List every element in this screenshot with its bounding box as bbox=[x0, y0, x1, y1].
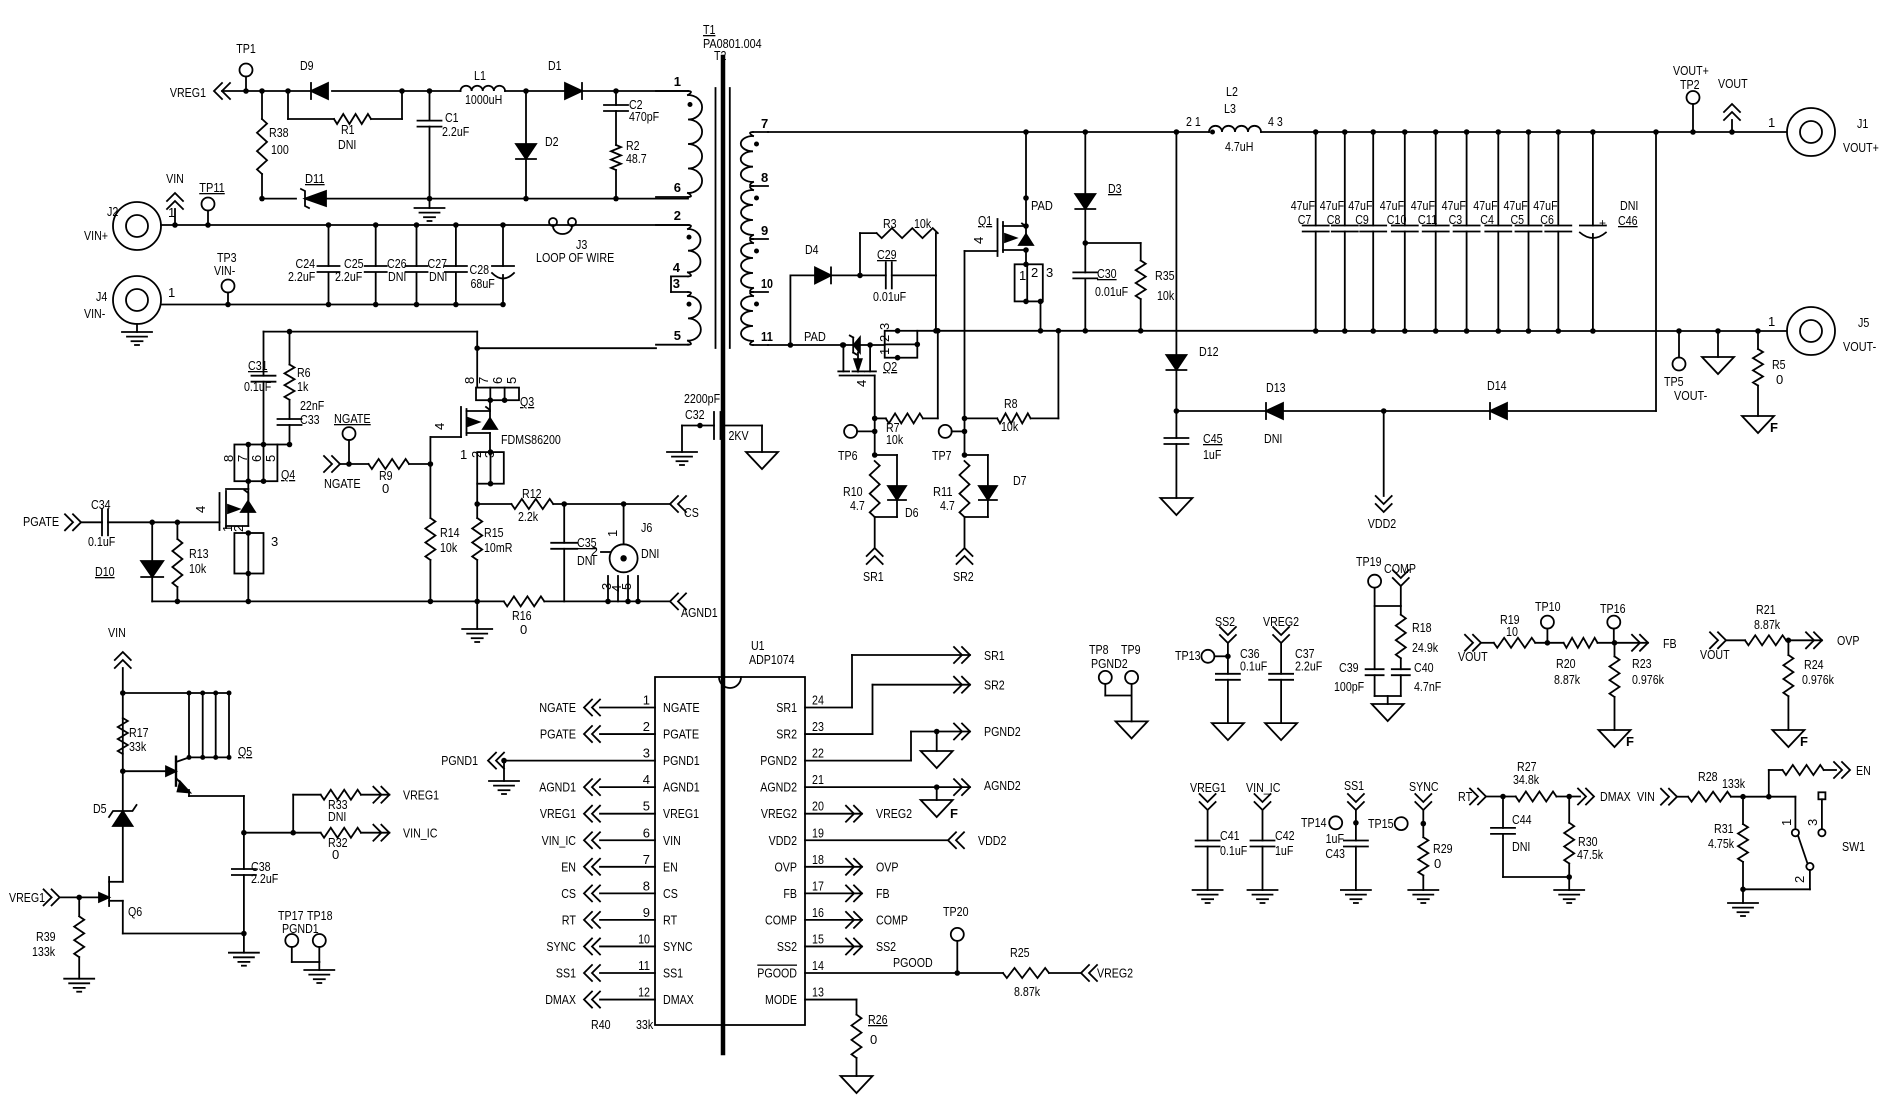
svg-text:R1: R1 bbox=[341, 122, 355, 137]
svg-text:7: 7 bbox=[235, 455, 250, 462]
svg-text:C5: C5 bbox=[1511, 212, 1525, 227]
svg-text:1k: 1k bbox=[297, 379, 309, 394]
svg-text:OVP: OVP bbox=[1837, 633, 1860, 648]
svg-text:1uF: 1uF bbox=[1203, 447, 1221, 462]
svg-text:2: 2 bbox=[877, 335, 892, 342]
svg-text:TP1: TP1 bbox=[236, 41, 256, 56]
svg-text:DNI: DNI bbox=[338, 137, 356, 152]
svg-text:11: 11 bbox=[761, 329, 773, 344]
svg-text:R39: R39 bbox=[36, 929, 56, 944]
svg-text:C11: C11 bbox=[1418, 212, 1438, 227]
svg-text:TP2: TP2 bbox=[1680, 77, 1700, 92]
svg-text:TP8: TP8 bbox=[1089, 642, 1109, 657]
svg-text:R29: R29 bbox=[1433, 841, 1453, 856]
svg-text:SR1: SR1 bbox=[984, 648, 1005, 663]
svg-text:+: + bbox=[1599, 216, 1606, 230]
svg-text:5: 5 bbox=[619, 583, 634, 590]
svg-text:PGND2: PGND2 bbox=[760, 753, 797, 768]
svg-text:C8: C8 bbox=[1327, 212, 1341, 227]
svg-text:D11: D11 bbox=[305, 171, 325, 186]
svg-text:2KV: 2KV bbox=[729, 428, 749, 443]
svg-text:9: 9 bbox=[761, 223, 768, 238]
svg-text:TP16: TP16 bbox=[1600, 601, 1626, 616]
svg-text:C40: C40 bbox=[1414, 660, 1434, 675]
svg-text:10k: 10k bbox=[1001, 419, 1019, 434]
svg-text:DNI: DNI bbox=[641, 546, 659, 561]
svg-text:22nF: 22nF bbox=[300, 398, 324, 413]
svg-text:L3: L3 bbox=[1224, 101, 1236, 116]
svg-text:2.2uF: 2.2uF bbox=[335, 269, 362, 284]
svg-text:10k: 10k bbox=[440, 540, 458, 555]
svg-text:2.2k: 2.2k bbox=[518, 509, 539, 524]
svg-text:D5: D5 bbox=[93, 801, 107, 816]
svg-text:AGND2: AGND2 bbox=[984, 778, 1021, 793]
svg-text:47uF: 47uF bbox=[1320, 198, 1344, 213]
svg-text:CS: CS bbox=[561, 886, 576, 901]
svg-text:23: 23 bbox=[812, 719, 824, 734]
svg-text:133k: 133k bbox=[32, 944, 55, 959]
svg-text:TP6: TP6 bbox=[838, 448, 858, 463]
svg-text:D12: D12 bbox=[1199, 344, 1219, 359]
svg-text:FB: FB bbox=[876, 886, 890, 901]
svg-text:47uF: 47uF bbox=[1473, 198, 1497, 213]
svg-text:100: 100 bbox=[271, 142, 289, 157]
svg-text:7: 7 bbox=[643, 852, 650, 867]
svg-text:22: 22 bbox=[812, 746, 824, 761]
svg-text:D10: D10 bbox=[95, 564, 115, 579]
svg-text:SYNC: SYNC bbox=[1409, 779, 1439, 794]
svg-text:14: 14 bbox=[812, 958, 824, 973]
svg-text:PGOOD: PGOOD bbox=[893, 955, 933, 970]
svg-text:VIN+: VIN+ bbox=[84, 228, 108, 243]
svg-text:R13: R13 bbox=[189, 546, 209, 561]
svg-text:0: 0 bbox=[1434, 856, 1441, 871]
svg-text:1uF: 1uF bbox=[1275, 843, 1293, 858]
svg-text:0: 0 bbox=[1776, 372, 1783, 387]
svg-text:3: 3 bbox=[877, 323, 892, 330]
svg-text:AGND2: AGND2 bbox=[760, 780, 797, 795]
svg-text:DNI: DNI bbox=[328, 809, 346, 824]
svg-text:EN: EN bbox=[561, 859, 576, 874]
svg-text:2 1: 2 1 bbox=[1186, 114, 1201, 129]
svg-text:4: 4 bbox=[193, 506, 208, 513]
svg-text:4.7: 4.7 bbox=[850, 498, 865, 513]
svg-text:Q2: Q2 bbox=[883, 359, 897, 374]
svg-text:DNI: DNI bbox=[1620, 198, 1638, 213]
svg-text:R3: R3 bbox=[883, 216, 897, 231]
svg-text:VREG1: VREG1 bbox=[540, 806, 576, 821]
svg-text:VDD2: VDD2 bbox=[978, 833, 1006, 848]
svg-text:24: 24 bbox=[812, 693, 824, 708]
svg-text:R15: R15 bbox=[484, 525, 504, 540]
svg-text:15: 15 bbox=[812, 931, 824, 946]
svg-text:SS1: SS1 bbox=[1344, 778, 1364, 793]
svg-text:4.7uH: 4.7uH bbox=[1225, 139, 1253, 154]
svg-text:18: 18 bbox=[812, 852, 824, 867]
svg-text:C44: C44 bbox=[1512, 812, 1532, 827]
svg-text:17: 17 bbox=[812, 878, 824, 893]
svg-text:1: 1 bbox=[643, 693, 650, 708]
svg-text:5: 5 bbox=[674, 328, 681, 343]
svg-text:FDMS86200: FDMS86200 bbox=[501, 432, 561, 447]
svg-text:ADP1074: ADP1074 bbox=[749, 652, 795, 667]
svg-text:SYNC: SYNC bbox=[663, 939, 693, 954]
svg-text:DNI: DNI bbox=[388, 269, 406, 284]
svg-text:0.1uF: 0.1uF bbox=[1240, 659, 1267, 674]
svg-text:100pF: 100pF bbox=[1334, 679, 1364, 694]
svg-text:R38: R38 bbox=[269, 125, 289, 140]
svg-text:F: F bbox=[1626, 734, 1634, 749]
svg-text:R28: R28 bbox=[1698, 769, 1718, 784]
svg-text:470pF: 470pF bbox=[629, 109, 659, 124]
svg-text:0.01uF: 0.01uF bbox=[1095, 284, 1128, 299]
svg-text:LOOP OF WIRE: LOOP OF WIRE bbox=[536, 250, 614, 265]
svg-text:VIN_IC: VIN_IC bbox=[542, 833, 576, 848]
svg-text:C39: C39 bbox=[1339, 660, 1359, 675]
svg-text:C6: C6 bbox=[1540, 212, 1554, 227]
svg-text:19: 19 bbox=[812, 825, 824, 840]
svg-text:FB: FB bbox=[1663, 636, 1677, 651]
svg-text:5: 5 bbox=[263, 455, 278, 462]
svg-text:Q3: Q3 bbox=[520, 394, 534, 409]
svg-text:PA0801.004: PA0801.004 bbox=[703, 36, 762, 51]
svg-text:R21: R21 bbox=[1756, 602, 1776, 617]
svg-text:4.7: 4.7 bbox=[940, 498, 955, 513]
svg-text:VIN: VIN bbox=[166, 171, 184, 186]
svg-text:10mR: 10mR bbox=[484, 540, 512, 555]
svg-text:VIN: VIN bbox=[663, 833, 681, 848]
svg-text:10k: 10k bbox=[1157, 288, 1175, 303]
svg-text:3: 3 bbox=[1805, 819, 1820, 826]
svg-text:C45: C45 bbox=[1203, 431, 1223, 446]
svg-text:R8: R8 bbox=[1004, 396, 1018, 411]
svg-text:D13: D13 bbox=[1266, 380, 1286, 395]
svg-text:5: 5 bbox=[504, 377, 519, 384]
svg-text:MODE: MODE bbox=[765, 992, 797, 1007]
svg-text:47uF: 47uF bbox=[1291, 198, 1315, 213]
svg-text:AGND1: AGND1 bbox=[539, 780, 576, 795]
svg-text:C30: C30 bbox=[1097, 266, 1117, 281]
svg-text:1: 1 bbox=[605, 530, 620, 537]
svg-text:47uF: 47uF bbox=[1380, 198, 1404, 213]
svg-text:C7: C7 bbox=[1298, 212, 1312, 227]
svg-text:C3: C3 bbox=[1449, 212, 1463, 227]
svg-text:20: 20 bbox=[812, 799, 824, 814]
svg-text:33k: 33k bbox=[129, 739, 147, 754]
svg-text:L2: L2 bbox=[1226, 84, 1238, 99]
svg-text:R12: R12 bbox=[522, 486, 542, 501]
svg-text:VIN_IC: VIN_IC bbox=[1246, 780, 1280, 795]
svg-text:2200pF: 2200pF bbox=[684, 391, 720, 406]
svg-text:VREG1: VREG1 bbox=[1190, 780, 1226, 795]
svg-text:Q4: Q4 bbox=[281, 467, 295, 482]
svg-text:0.1uF: 0.1uF bbox=[244, 379, 271, 394]
svg-text:DNI: DNI bbox=[1264, 431, 1282, 446]
svg-text:1: 1 bbox=[1779, 819, 1794, 826]
svg-text:R35: R35 bbox=[1155, 268, 1175, 283]
svg-text:SR2: SR2 bbox=[984, 678, 1005, 693]
svg-text:2: 2 bbox=[674, 208, 681, 223]
svg-text:4: 4 bbox=[854, 380, 869, 387]
svg-text:C9: C9 bbox=[1355, 212, 1369, 227]
svg-text:8: 8 bbox=[643, 878, 650, 893]
svg-text:1uF: 1uF bbox=[1326, 831, 1344, 846]
svg-text:1: 1 bbox=[1768, 314, 1775, 329]
svg-text:R26: R26 bbox=[868, 1012, 888, 1027]
svg-text:47uF: 47uF bbox=[1504, 198, 1528, 213]
svg-text:VIN: VIN bbox=[108, 625, 126, 640]
svg-text:VOUT: VOUT bbox=[1458, 649, 1488, 664]
svg-text:0.976k: 0.976k bbox=[1632, 672, 1664, 687]
svg-text:SS2: SS2 bbox=[876, 939, 896, 954]
svg-text:DMAX: DMAX bbox=[545, 992, 576, 1007]
svg-text:RT: RT bbox=[663, 912, 677, 927]
svg-text:4.7nF: 4.7nF bbox=[1414, 679, 1441, 694]
svg-text:R11: R11 bbox=[933, 484, 953, 499]
svg-text:7: 7 bbox=[761, 116, 768, 131]
svg-text:68uF: 68uF bbox=[471, 276, 495, 291]
svg-text:R24: R24 bbox=[1804, 657, 1824, 672]
svg-text:TP10: TP10 bbox=[1535, 599, 1561, 614]
svg-text:4: 4 bbox=[673, 260, 681, 275]
svg-text:C42: C42 bbox=[1275, 828, 1295, 843]
svg-text:VIN-: VIN- bbox=[84, 306, 105, 321]
svg-text:47uF: 47uF bbox=[1348, 198, 1372, 213]
svg-text:VDD2: VDD2 bbox=[1368, 516, 1396, 531]
svg-text:COMP: COMP bbox=[876, 912, 908, 927]
svg-text:VOUT+: VOUT+ bbox=[1843, 140, 1879, 155]
svg-text:COMP: COMP bbox=[1384, 561, 1416, 576]
svg-text:0: 0 bbox=[870, 1032, 877, 1047]
svg-text:10: 10 bbox=[638, 931, 650, 946]
svg-text:R5: R5 bbox=[1772, 357, 1786, 372]
svg-text:1: 1 bbox=[674, 74, 681, 89]
svg-text:DMAX: DMAX bbox=[663, 992, 694, 1007]
svg-text:NGATE: NGATE bbox=[539, 700, 576, 715]
svg-text:PGND2: PGND2 bbox=[1091, 656, 1128, 671]
svg-text:0: 0 bbox=[332, 847, 339, 862]
svg-text:SR2: SR2 bbox=[776, 727, 797, 742]
svg-text:D14: D14 bbox=[1487, 378, 1507, 393]
svg-text:NGATE: NGATE bbox=[663, 700, 700, 715]
svg-text:C34: C34 bbox=[91, 497, 111, 512]
svg-text:7: 7 bbox=[476, 377, 491, 384]
svg-text:3: 3 bbox=[643, 746, 650, 761]
svg-text:PGOOD: PGOOD bbox=[757, 966, 797, 981]
svg-text:D2: D2 bbox=[545, 134, 559, 149]
svg-text:2.2uF: 2.2uF bbox=[1295, 659, 1322, 674]
svg-text:PGND2: PGND2 bbox=[984, 724, 1021, 739]
svg-text:133k: 133k bbox=[1722, 776, 1745, 791]
svg-text:4.75k: 4.75k bbox=[1708, 836, 1735, 851]
svg-text:TP13: TP13 bbox=[1175, 648, 1201, 663]
svg-text:C41: C41 bbox=[1220, 828, 1240, 843]
svg-text:R40: R40 bbox=[591, 1017, 611, 1032]
svg-text:47.5k: 47.5k bbox=[1577, 847, 1604, 862]
svg-text:1: 1 bbox=[460, 447, 467, 462]
svg-text:EN: EN bbox=[663, 859, 678, 874]
svg-text:T1: T1 bbox=[703, 22, 715, 37]
svg-text:3: 3 bbox=[673, 276, 680, 291]
svg-text:CS: CS bbox=[684, 505, 699, 520]
svg-text:C31: C31 bbox=[248, 358, 268, 373]
svg-text:VREG1: VREG1 bbox=[403, 788, 439, 803]
svg-text:R6: R6 bbox=[297, 365, 311, 380]
svg-text:2.2uF: 2.2uF bbox=[442, 124, 469, 139]
svg-text:F: F bbox=[1800, 734, 1808, 749]
svg-text:33k: 33k bbox=[636, 1017, 654, 1032]
svg-text:U1: U1 bbox=[751, 638, 765, 653]
svg-text:D3: D3 bbox=[1108, 181, 1122, 196]
svg-text:R31: R31 bbox=[1714, 821, 1734, 836]
svg-text:CS: CS bbox=[663, 886, 678, 901]
svg-text:47uF: 47uF bbox=[1442, 198, 1466, 213]
svg-text:R20: R20 bbox=[1556, 656, 1576, 671]
svg-text:F: F bbox=[950, 806, 958, 821]
svg-text:R10: R10 bbox=[843, 484, 863, 499]
svg-text:R16: R16 bbox=[512, 608, 532, 623]
svg-text:PGND1: PGND1 bbox=[441, 753, 478, 768]
svg-text:16: 16 bbox=[812, 905, 824, 920]
svg-text:C28: C28 bbox=[470, 262, 490, 277]
svg-text:10: 10 bbox=[761, 276, 773, 291]
svg-text:SS1: SS1 bbox=[556, 966, 576, 981]
svg-text:VOUT-: VOUT- bbox=[1674, 388, 1707, 403]
svg-text:47uF: 47uF bbox=[1533, 198, 1557, 213]
svg-text:J5: J5 bbox=[1858, 315, 1869, 330]
svg-text:VIN-: VIN- bbox=[214, 263, 235, 278]
svg-text:C29: C29 bbox=[877, 247, 897, 262]
svg-text:TP7: TP7 bbox=[932, 448, 952, 463]
svg-text:AGND1: AGND1 bbox=[663, 780, 700, 795]
svg-text:PAD: PAD bbox=[804, 329, 826, 344]
svg-text:D9: D9 bbox=[300, 58, 314, 73]
svg-text:Q5: Q5 bbox=[238, 744, 252, 759]
svg-text:1: 1 bbox=[1019, 268, 1026, 283]
svg-text:2.2uF: 2.2uF bbox=[288, 269, 315, 284]
svg-text:5: 5 bbox=[643, 799, 650, 814]
svg-text:VDD2: VDD2 bbox=[769, 833, 797, 848]
svg-text:4: 4 bbox=[432, 423, 447, 430]
svg-text:3: 3 bbox=[1046, 265, 1053, 280]
svg-text:Q1: Q1 bbox=[978, 213, 992, 228]
svg-text:12: 12 bbox=[638, 985, 650, 1000]
svg-text:DNI: DNI bbox=[429, 269, 447, 284]
svg-text:TP15: TP15 bbox=[1368, 816, 1394, 831]
svg-text:PAD: PAD bbox=[1031, 198, 1053, 213]
svg-text:R18: R18 bbox=[1412, 620, 1432, 635]
svg-text:SYNC: SYNC bbox=[546, 939, 576, 954]
svg-text:C32: C32 bbox=[685, 407, 705, 422]
svg-text:FB: FB bbox=[783, 886, 797, 901]
svg-text:0.01uF: 0.01uF bbox=[873, 289, 906, 304]
svg-text:L1: L1 bbox=[474, 68, 486, 83]
svg-text:C10: C10 bbox=[1387, 212, 1407, 227]
svg-text:8: 8 bbox=[761, 170, 768, 185]
svg-text:D1: D1 bbox=[548, 58, 562, 73]
svg-text:TP19: TP19 bbox=[1356, 554, 1382, 569]
svg-text:6: 6 bbox=[490, 377, 505, 384]
svg-text:8: 8 bbox=[221, 455, 236, 462]
svg-text:DMAX: DMAX bbox=[1600, 789, 1631, 804]
svg-text:2: 2 bbox=[1031, 265, 1038, 280]
svg-text:1: 1 bbox=[168, 285, 175, 300]
svg-text:D4: D4 bbox=[805, 242, 819, 257]
svg-text:TP14: TP14 bbox=[1301, 815, 1327, 830]
svg-text:0.976k: 0.976k bbox=[1802, 672, 1834, 687]
svg-text:NGATE: NGATE bbox=[324, 476, 361, 491]
svg-text:VOUT-: VOUT- bbox=[1843, 339, 1876, 354]
svg-text:2: 2 bbox=[1792, 876, 1807, 883]
svg-text:6: 6 bbox=[674, 180, 681, 195]
svg-text:VIN: VIN bbox=[1637, 789, 1655, 804]
svg-text:VOUT: VOUT bbox=[1700, 647, 1730, 662]
svg-text:6: 6 bbox=[249, 455, 264, 462]
svg-text:47uF: 47uF bbox=[1411, 198, 1435, 213]
svg-text:VREG2: VREG2 bbox=[761, 806, 797, 821]
svg-text:J6: J6 bbox=[641, 520, 652, 535]
svg-text:13: 13 bbox=[812, 985, 824, 1000]
svg-text:SR1: SR1 bbox=[863, 569, 884, 584]
svg-text:4 3: 4 3 bbox=[1268, 114, 1283, 129]
svg-text:D7: D7 bbox=[1013, 473, 1027, 488]
svg-text:C1: C1 bbox=[445, 110, 459, 125]
svg-text:TP11: TP11 bbox=[199, 180, 225, 195]
svg-text:OVP: OVP bbox=[775, 859, 798, 874]
svg-text:PGATE: PGATE bbox=[540, 727, 576, 742]
svg-text:R23: R23 bbox=[1632, 656, 1652, 671]
svg-text:TP20: TP20 bbox=[943, 904, 969, 919]
svg-text:VREG2: VREG2 bbox=[1097, 966, 1133, 981]
svg-text:0: 0 bbox=[520, 622, 527, 637]
svg-text:J4: J4 bbox=[96, 289, 107, 304]
svg-text:R14: R14 bbox=[440, 525, 460, 540]
svg-text:2.2uF: 2.2uF bbox=[251, 871, 278, 886]
svg-text:10k: 10k bbox=[914, 216, 932, 231]
svg-text:1000uH: 1000uH bbox=[465, 92, 502, 107]
svg-text:J2: J2 bbox=[107, 204, 118, 219]
svg-text:10k: 10k bbox=[886, 432, 904, 447]
svg-text:SR1: SR1 bbox=[776, 700, 797, 715]
svg-text:10k: 10k bbox=[189, 561, 207, 576]
svg-text:VOUT: VOUT bbox=[1718, 76, 1748, 91]
svg-text:8.87k: 8.87k bbox=[1014, 984, 1041, 999]
svg-text:6: 6 bbox=[643, 825, 650, 840]
svg-text:34.8k: 34.8k bbox=[1513, 772, 1540, 787]
svg-text:2: 2 bbox=[231, 525, 246, 532]
svg-text:C33: C33 bbox=[300, 412, 320, 427]
svg-text:C4: C4 bbox=[1480, 212, 1494, 227]
svg-text:D6: D6 bbox=[905, 505, 919, 520]
svg-text:9: 9 bbox=[643, 905, 650, 920]
svg-text:4: 4 bbox=[971, 237, 986, 244]
svg-text:21: 21 bbox=[812, 772, 824, 787]
svg-text:COMP: COMP bbox=[765, 912, 797, 927]
svg-text:8.87k: 8.87k bbox=[1554, 672, 1581, 687]
svg-text:4: 4 bbox=[643, 772, 650, 787]
svg-text:PGATE: PGATE bbox=[23, 514, 59, 529]
svg-text:TP9: TP9 bbox=[1121, 642, 1141, 657]
svg-text:SS1: SS1 bbox=[663, 966, 683, 981]
svg-text:TP5: TP5 bbox=[1664, 374, 1684, 389]
svg-text:C43: C43 bbox=[1325, 846, 1345, 861]
svg-text:8: 8 bbox=[462, 377, 477, 384]
svg-text:VREG2: VREG2 bbox=[1263, 614, 1299, 629]
svg-text:PGATE: PGATE bbox=[663, 727, 699, 742]
svg-text:10: 10 bbox=[1506, 624, 1518, 639]
svg-text:3: 3 bbox=[271, 534, 278, 549]
svg-text:VIN_IC: VIN_IC bbox=[403, 826, 437, 841]
